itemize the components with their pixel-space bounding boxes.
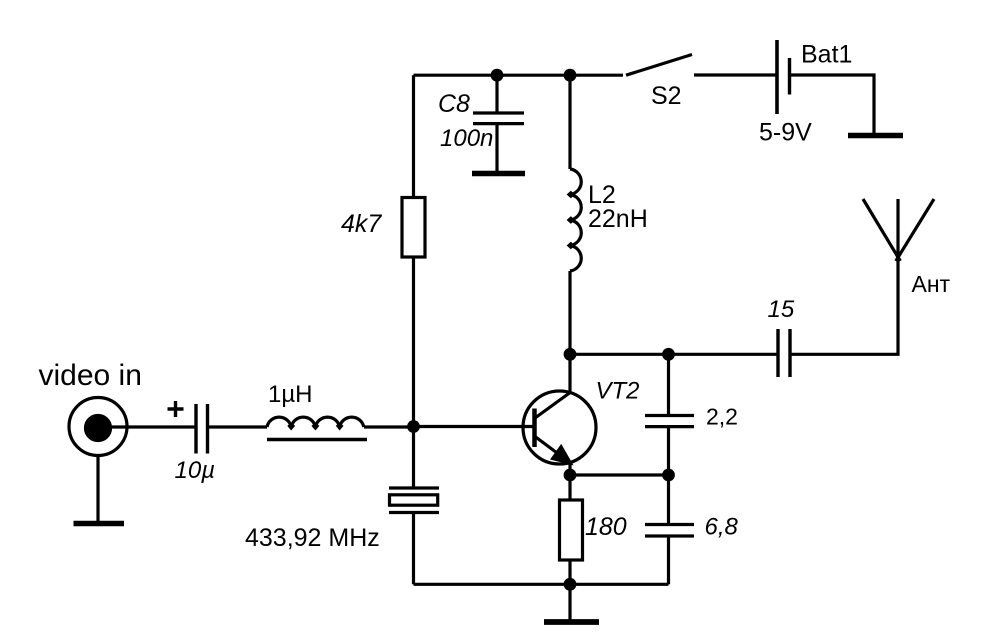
wire emitter to resistor 180 <box>568 475 571 500</box>
plus sign for 10u polarity <box>168 401 184 417</box>
connector video in center pin <box>86 416 111 441</box>
capacitor 2,2 plates <box>645 416 694 427</box>
node A base junction <box>407 420 420 433</box>
capacitor 10u plates <box>196 404 208 454</box>
transistor VT2 circle <box>523 391 596 464</box>
svg-text:Ант: Ант <box>912 271 951 297</box>
node bottom rail junction <box>564 578 577 591</box>
wire crystal to bottom rail <box>412 513 415 585</box>
ground center <box>544 619 599 625</box>
wire connector shell to ground <box>96 456 99 522</box>
svg-text:VT2: VT2 <box>596 378 640 405</box>
svg-text:Bat1: Bat1 <box>801 41 852 69</box>
resistor 180 <box>560 500 583 560</box>
wire C8 drop <box>495 75 498 113</box>
connector video in outer ring <box>69 398 127 456</box>
wire ground stub <box>568 584 571 620</box>
wire resistor 180 to bottom rail <box>568 560 571 584</box>
wire cap 6,8 drop <box>667 475 670 525</box>
antenna arms <box>863 199 934 261</box>
svg-text:4k7: 4k7 <box>341 210 382 238</box>
svg-text:5-9V: 5-9V <box>759 119 812 147</box>
resistor R1 4k7 <box>402 198 425 258</box>
inductor L2 <box>570 169 581 271</box>
wire collector lead <box>568 354 571 391</box>
node collector cap junction <box>662 348 675 361</box>
ground under C8 <box>472 171 525 177</box>
wire emitter row <box>570 473 669 476</box>
wire cap 2,2 to emitter row <box>667 427 670 476</box>
svg-text:6,8: 6,8 <box>705 514 739 541</box>
wire node A to crystal <box>412 427 415 488</box>
svg-text:100n: 100n <box>440 125 493 152</box>
capacitor 6,8 plates <box>645 525 694 537</box>
svg-text:1µH: 1µH <box>268 381 313 408</box>
transistor VT2 emitter stroke <box>535 437 571 464</box>
wire inductor to node A <box>364 425 413 428</box>
svg-text:10µ: 10µ <box>175 457 216 484</box>
inductor 1uH coil <box>267 417 364 427</box>
battery Bat1 long plate <box>775 40 779 114</box>
inductor 1uH core bar <box>267 438 367 442</box>
svg-text:video in: video in <box>39 359 142 392</box>
wire L2 drop <box>568 75 571 169</box>
crystal ZQ1 body <box>390 495 438 505</box>
capacitor 15 plates <box>778 329 790 377</box>
inductor L2 loop cusps <box>569 192 572 248</box>
node emitter cap junction <box>662 469 675 482</box>
node top C8 junction <box>491 69 504 82</box>
svg-text:2,2: 2,2 <box>706 404 738 430</box>
wire C8 to ground <box>495 124 498 172</box>
node emitter junction <box>564 469 577 482</box>
crystal ZQ1 top plate <box>389 486 439 489</box>
wire L2 to collector node <box>568 271 571 354</box>
svg-text:180: 180 <box>585 513 627 541</box>
wire connector to cap 10u <box>98 425 195 428</box>
node collector junction <box>564 348 577 361</box>
wire resistor R1 to node A <box>412 257 415 427</box>
svg-text:C8: C8 <box>438 90 470 118</box>
svg-text:433,92 MHz: 433,92 MHz <box>245 524 380 552</box>
capacitor C8 plates <box>473 113 524 124</box>
svg-text:15: 15 <box>768 296 795 323</box>
inductor 1uH loop cusps <box>289 425 343 428</box>
switch S2 arm <box>626 55 692 76</box>
wire battery to ground corner <box>790 75 874 133</box>
battery Bat1 short plate <box>788 58 791 95</box>
wire top rail <box>414 74 624 77</box>
wire cap 6,8 to bottom rail <box>667 536 670 584</box>
ground under Bat1 <box>848 133 903 139</box>
transistor VT2 emitter arrow <box>552 446 571 463</box>
crystal ZQ1 bottom plate <box>389 511 439 514</box>
svg-text:22nH: 22nH <box>588 205 648 233</box>
wire S2 fixed contact to battery <box>694 73 776 76</box>
node top L2 junction <box>564 69 577 82</box>
svg-text:S2: S2 <box>651 82 682 110</box>
transistor VT2 base bar <box>532 409 537 448</box>
wire cap 10u to inductor <box>208 425 267 428</box>
wire bottom rail <box>414 583 669 586</box>
wire cap 2,2 drop <box>667 354 670 415</box>
wire emitter lead <box>568 462 571 475</box>
wire base from node A <box>414 425 534 428</box>
transistor VT2 collector stroke <box>535 392 572 419</box>
ground under connector <box>74 521 125 527</box>
wire collector rail <box>570 353 777 356</box>
wire left vertical from top rail to resistor R1 <box>412 75 415 197</box>
wire cap 15 to antenna <box>791 199 899 354</box>
